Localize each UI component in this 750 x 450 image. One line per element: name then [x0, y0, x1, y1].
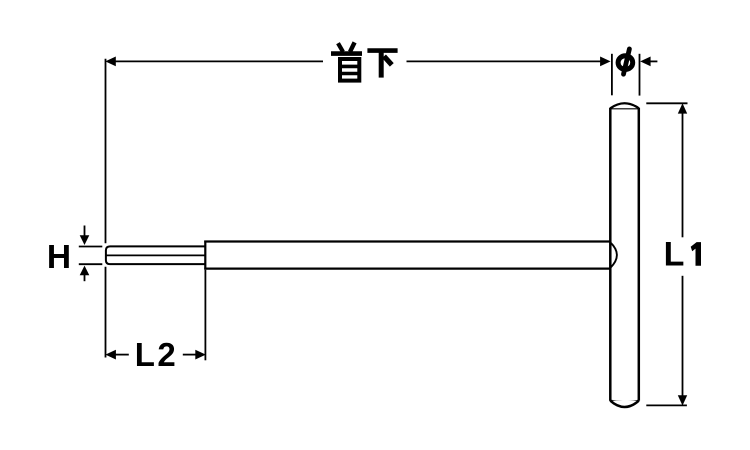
handle top dome arc	[610, 103, 639, 108]
hex tip facet line	[107, 254, 206, 256]
dimension 首下: line left segment	[115, 60, 323, 62]
dimension φ: right tail line	[650, 60, 657, 62]
shaft top edge	[204, 240, 610, 242]
svg-text:L2: L2	[135, 336, 179, 373]
shaft left end face	[204, 241, 206, 270]
dimension φ: right extension line	[639, 54, 641, 96]
dimension 首下: line right segment	[407, 60, 602, 62]
handle bottom chord	[610, 401, 639, 402]
dimension φ: left-pointing arrowhead	[640, 57, 650, 67]
extension line at tip/shaft joint (L2 right)	[204, 270, 206, 361]
handle bottom cup arc	[610, 401, 639, 407]
dimension L1: top extension line	[646, 102, 687, 104]
dimension H: upper tick line	[79, 246, 103, 248]
dimension 首下: left arrowhead	[105, 57, 116, 67]
shaft-handle fillet arc	[610, 242, 617, 268]
dimension L2: line right segment	[183, 354, 196, 356]
label φ (drawn)	[618, 49, 633, 74]
dimension L1: line upper segment	[682, 113, 684, 238]
dimension L2: right arrowhead	[195, 350, 206, 360]
label 首 (drawn strokes)	[331, 42, 362, 80]
dimension H: lower arrow stem	[84, 274, 86, 281]
dimension L1: line lower segment	[682, 276, 684, 397]
handle top chord	[610, 107, 639, 109]
hex tip outline	[106, 246, 206, 264]
dimension H: lower tick line	[79, 263, 103, 265]
dimension L1: bottom extension line	[646, 404, 687, 406]
dimension L1: top arrowhead (up)	[678, 103, 687, 113]
dimension H: lower arrowhead (up)	[80, 266, 90, 276]
handle left edge	[609, 108, 612, 401]
dimension L1: bottom arrowhead (down)	[678, 395, 687, 405]
dimension L2: left arrowhead	[105, 350, 116, 360]
svg-text:H: H	[47, 239, 71, 276]
handle right edge	[638, 108, 641, 401]
svg-text:L: L	[664, 236, 685, 274]
dimension H: upper arrowhead (down)	[80, 235, 90, 245]
label 下 (drawn strokes)	[367, 51, 397, 78]
extension line left (shared 首下 / L2 / H)	[105, 59, 107, 358]
dimension H: upper arrow stem	[84, 226, 86, 237]
dimension L2: line left segment	[116, 354, 129, 356]
dimension 首下: right arrowhead	[600, 57, 611, 67]
shaft bottom edge	[204, 268, 610, 270]
dimension φ: left extension line	[611, 54, 613, 96]
